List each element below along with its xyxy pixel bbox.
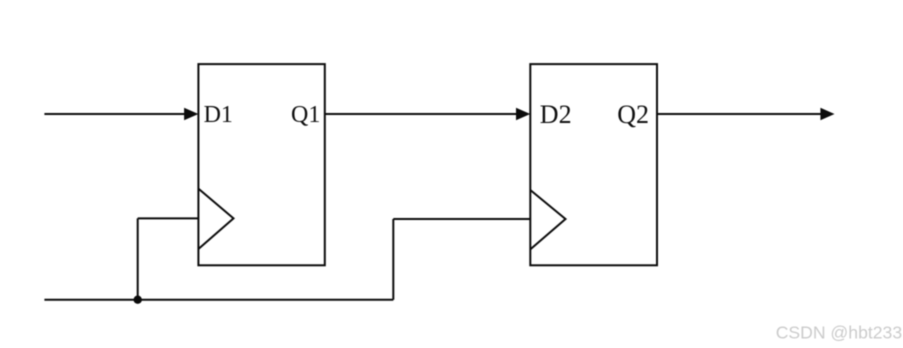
svg-text:Q2: Q2 <box>617 100 649 129</box>
D flip-flop U1 body <box>198 64 324 265</box>
clock edge triangle U1 <box>198 189 233 249</box>
wire clock horizontal to U2 <box>393 218 530 220</box>
svg-text:D2: D2 <box>540 100 572 129</box>
wire input to D1 <box>44 113 191 115</box>
arrowhead into D1 <box>184 108 198 120</box>
svg-text:D1: D1 <box>204 102 233 128</box>
clock edge triangle U2 <box>530 190 565 249</box>
wire clock vertical riser at junction <box>137 218 139 299</box>
svg-text:Q1: Q1 <box>291 102 320 128</box>
wire clock bottom horizontal <box>44 299 393 301</box>
arrowhead Q2 output <box>820 108 834 120</box>
arrowhead into D2 <box>516 108 530 120</box>
svg-text:CSDN @hbt233: CSDN @hbt233 <box>776 323 903 343</box>
wire clock horizontal to U1 <box>138 217 199 219</box>
wire Q1 to D2 <box>325 113 523 115</box>
junction dot clock node <box>134 296 142 304</box>
D flip-flop U2 body <box>530 64 657 265</box>
wire clock vertical riser to U2 <box>392 219 394 300</box>
wire Q2 output <box>657 113 826 115</box>
